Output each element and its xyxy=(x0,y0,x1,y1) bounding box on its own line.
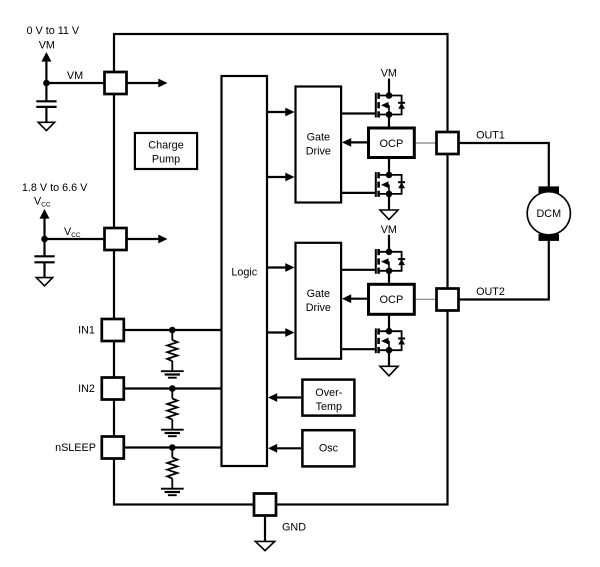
pin IN2 xyxy=(102,378,124,400)
wire nSLEEP to logic xyxy=(124,446,221,448)
gate drive 1 box xyxy=(296,87,342,203)
over-temp box xyxy=(302,380,354,416)
svg-text:VM: VM xyxy=(39,40,55,52)
wire gate of Q4 (low side 2) xyxy=(342,348,376,350)
wire VM to Q1 drain xyxy=(388,79,390,96)
svg-text:Over-: Over- xyxy=(315,387,342,399)
node junction dot IN1 xyxy=(169,327,176,334)
arrow OCP1 to gate drive 1 xyxy=(350,141,368,143)
svg-text:Drive: Drive xyxy=(306,302,331,314)
charge pump box xyxy=(135,133,197,169)
svg-text:DCM: DCM xyxy=(537,208,562,220)
wire IN1 to logic xyxy=(124,329,221,331)
ground (VCC bypass) xyxy=(36,278,52,286)
capacitor C1 (VM bypass) xyxy=(36,83,56,122)
svg-text:GND: GND xyxy=(282,522,306,534)
wire OCP1 sense to OUT1 pin (thin) xyxy=(416,142,436,144)
svg-text:Osc: Osc xyxy=(319,443,339,455)
logic box U1 xyxy=(222,76,268,466)
motor DCM xyxy=(527,186,570,241)
ground (pulldown nSLEEP) xyxy=(161,488,184,490)
pin OUT2 xyxy=(437,289,459,311)
node A junction dot VM xyxy=(43,80,50,87)
svg-text:1.8 V to 6.6 V: 1.8 V to 6.6 V xyxy=(22,182,88,194)
wire VM to Q3 drain xyxy=(388,235,390,252)
pin OUT1 xyxy=(437,132,459,154)
resistor pulldown IN2 xyxy=(171,389,173,399)
pin IN1 xyxy=(102,319,124,341)
ground (VM bypass) xyxy=(38,122,54,130)
node junction dot VCC xyxy=(41,236,48,243)
oscillator box xyxy=(302,430,354,466)
wire GND pin to ground xyxy=(264,516,266,542)
svg-text:OUT1: OUT1 xyxy=(476,130,505,142)
svg-text:Temp: Temp xyxy=(316,401,342,413)
pin VM xyxy=(105,72,127,94)
wire Q1 source to OCP1 xyxy=(388,115,390,127)
VM supply arrow xyxy=(45,59,47,83)
wire Q4 source to ground xyxy=(388,350,390,366)
wire Q2 source to ground xyxy=(388,194,390,210)
arrow VCC internal rail xyxy=(127,238,160,240)
svg-text:VM: VM xyxy=(381,224,397,236)
device outline xyxy=(114,34,448,505)
wire gate of Q2 (low side 1) xyxy=(342,192,376,194)
OCP 1 box xyxy=(369,128,415,158)
svg-text:Drive: Drive xyxy=(306,146,331,158)
svg-text:Charge: Charge xyxy=(148,140,183,152)
arrow VM internal rail xyxy=(127,82,160,84)
svg-text:IN2: IN2 xyxy=(78,383,95,395)
node junction dot nSLEEP xyxy=(169,444,176,451)
pin GND xyxy=(254,494,276,516)
svg-text:VM: VM xyxy=(67,70,83,82)
arrow logic to gate drive y=332.5 xyxy=(268,331,287,333)
wire OCP2 sense to OUT2 pin (thin) xyxy=(416,298,436,300)
arrow logic to gate drive y=267.5 xyxy=(268,266,287,268)
transistor Q4 (low side 2) xyxy=(376,328,405,354)
OCP 2 box xyxy=(369,284,415,314)
wire OCP2 to Q4 drain xyxy=(388,315,390,331)
arrow osc to logic xyxy=(276,447,302,449)
svg-text:Logic: Logic xyxy=(231,267,257,279)
svg-text:nSLEEP: nSLEEP xyxy=(55,442,96,454)
svg-text:Pump: Pump xyxy=(152,154,180,166)
capacitor C2 (VCC bypass) xyxy=(34,239,54,278)
wire VM to pin xyxy=(46,82,104,84)
transistor Q2 (low side 1) xyxy=(376,172,405,198)
ground (bridge 2) xyxy=(380,366,398,376)
svg-text:0 V to 11 V: 0 V to 11 V xyxy=(26,25,79,37)
ground (GND pin) xyxy=(255,541,274,550)
wire gate of Q1 (high side 1) xyxy=(342,112,376,114)
VCC supply arrow xyxy=(43,216,45,239)
svg-text:Gate: Gate xyxy=(307,132,330,144)
arrow logic to gate drive y=177 xyxy=(268,176,287,178)
arrow OCP2 to gate drive 2 xyxy=(350,298,368,300)
wire OUT1 to motor xyxy=(460,143,549,186)
resistor pulldown nSLEEP xyxy=(171,448,173,458)
svg-text:Gate: Gate xyxy=(307,288,330,300)
svg-text:VM: VM xyxy=(381,68,397,80)
gate drive 2 box xyxy=(296,243,342,359)
ground (pulldown IN2) xyxy=(161,429,184,431)
wire VCC to pin xyxy=(45,238,105,240)
wire motor to OUT2 xyxy=(460,241,549,300)
wire IN2 to logic xyxy=(124,387,221,389)
ground (bridge 1) xyxy=(380,210,398,220)
wire gate of Q3 (high side 2) xyxy=(342,269,376,271)
node junction dot IN2 xyxy=(169,385,176,392)
ground (pulldown IN1) xyxy=(161,370,184,372)
wire Q3 source to OCP2 xyxy=(388,271,390,283)
svg-text:IN1: IN1 xyxy=(78,325,95,337)
transistor Q3 (high side 2) xyxy=(376,249,405,275)
transistor Q1 (high side 1) xyxy=(376,92,405,118)
arrow over-temp to logic xyxy=(276,396,302,398)
pin nSLEEP xyxy=(102,437,124,459)
svg-text:OUT2: OUT2 xyxy=(476,286,505,298)
svg-text:OCP: OCP xyxy=(379,138,403,150)
resistor pulldown IN1 xyxy=(171,330,173,340)
wire OCP1 to Q2 drain xyxy=(388,159,390,175)
svg-text:OCP: OCP xyxy=(379,294,403,306)
pin VCC xyxy=(105,228,127,250)
arrow logic to gate drive y=112 xyxy=(268,111,287,113)
